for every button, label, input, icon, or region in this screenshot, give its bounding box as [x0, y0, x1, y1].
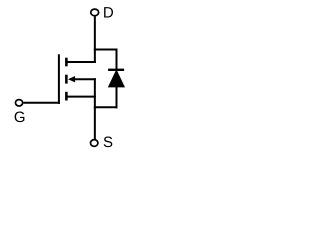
transistor Q1 source bar	[65, 92, 68, 101]
terminal S circle	[91, 140, 98, 147]
wire source bar to trunk	[66, 96, 95, 98]
wire diode cathode vertical	[116, 49, 118, 71]
wire body to source trunk	[75, 78, 96, 80]
terminal D circle	[91, 9, 99, 16]
diode D1 cathode bar	[108, 69, 124, 71]
diode D1 triangle	[108, 69, 125, 87]
wire source trunk vertical	[94, 78, 96, 139]
wire drain to top bar	[66, 61, 95, 63]
transistor Q1 gate vertical line	[58, 54, 60, 104]
terminal G circle	[15, 100, 22, 106]
wire anode to source	[94, 106, 118, 108]
label S	[104, 137, 113, 148]
transistor Q1 body bar	[65, 75, 68, 84]
label D	[104, 7, 113, 17]
wire drain vertical	[94, 16, 96, 63]
wire diode anode vertical	[116, 87, 118, 109]
transistor Q1 body arrow	[68, 76, 75, 82]
transistor Q1 drain bar	[65, 58, 68, 67]
label G	[15, 112, 25, 123]
wire diode branch horizontal	[94, 49, 117, 51]
wire gate horizontal	[23, 102, 60, 104]
